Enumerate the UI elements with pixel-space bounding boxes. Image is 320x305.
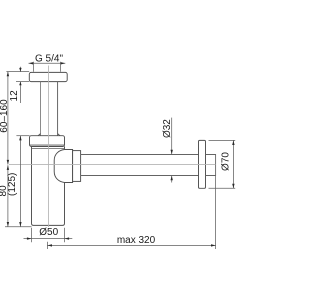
Ø50 extension line left <box>31 228 33 243</box>
dimension G 5/4" <box>29 62 66 64</box>
svg-text:(125): (125) <box>7 173 18 196</box>
dimension Ø50 line <box>24 238 73 240</box>
dimension (125) line <box>19 136 21 227</box>
dimension 60-160 line <box>7 72 9 165</box>
dimension 12 lower tail <box>19 82 21 103</box>
tube wall right <box>57 82 59 136</box>
dimension Ø70 line <box>232 140 234 188</box>
dimension 80 line <box>7 165 9 226</box>
svg-text:Ø70: Ø70 <box>220 152 231 171</box>
dimension Ø32 lower tail <box>171 176 173 183</box>
svg-text:G 5/4": G 5/4" <box>35 54 63 65</box>
outlet pipe top edge <box>81 154 199 156</box>
elbow outlet <box>54 150 72 183</box>
pipe stub behind wall <box>206 155 216 176</box>
svg-text:Ø50: Ø50 <box>39 227 58 238</box>
wall escutcheon <box>199 140 206 188</box>
flange (top nut) <box>29 72 67 81</box>
thread extension line right <box>60 62 62 72</box>
tube wall left <box>40 82 42 136</box>
tube flare left <box>38 134 41 136</box>
extension line flange bottom <box>16 81 29 83</box>
dimension Ø32 upper tail <box>171 118 173 155</box>
svg-text:60–160: 60–160 <box>0 99 10 133</box>
pipe nut ring <box>73 151 81 182</box>
svg-text:Ø32: Ø32 <box>162 119 173 138</box>
vertical centerline of trap <box>48 66 50 228</box>
dimension 12 upper tail <box>19 67 21 72</box>
extension line nut top <box>16 135 29 137</box>
outlet pipe bottom edge <box>81 175 199 177</box>
Ø50 extension line right <box>64 228 66 243</box>
max320 extension line right <box>215 176 217 249</box>
Ø70 extension line top <box>209 139 236 141</box>
nut face line <box>30 144 65 146</box>
coupling nut of trap body <box>30 136 65 147</box>
dimension max 320 line <box>47 244 215 246</box>
extension line cup bottom <box>5 226 32 228</box>
extension line flange top <box>6 71 29 73</box>
max320 extension tick at centerline <box>46 242 48 249</box>
horizontal axis centerline of outlet pipe <box>9 164 216 166</box>
svg-text:max 320: max 320 <box>117 235 156 246</box>
cup shoulder line <box>32 147 65 149</box>
Ø70 extension line bottom <box>209 187 236 189</box>
thread extension line left <box>33 62 35 72</box>
tube flare right <box>58 134 61 136</box>
trap cup body <box>32 146 65 225</box>
svg-text:12: 12 <box>9 90 20 102</box>
